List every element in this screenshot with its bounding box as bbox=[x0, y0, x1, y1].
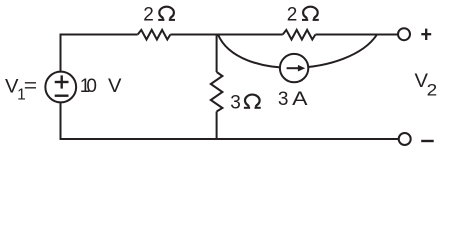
wire: top right from R2 to terminal bbox=[315, 34, 398, 36]
wire: top middle from R1 to node A bbox=[170, 34, 282, 36]
svg-text:A: A bbox=[292, 89, 308, 110]
terminal top (open circle) bbox=[398, 28, 410, 40]
svg-text:3: 3 bbox=[278, 89, 289, 110]
wire: left vertical above source bbox=[60, 34, 62, 73]
current source arrow bbox=[287, 65, 306, 72]
resistor R2 2ohm (top-right zigzag) bbox=[283, 30, 316, 40]
current source I1 circle bbox=[280, 54, 308, 82]
svg-text:=: = bbox=[24, 76, 37, 97]
resistor R1 2ohm (top-left zigzag) bbox=[138, 30, 171, 40]
wire: top-left horizontal from source to R1 bbox=[60, 34, 138, 36]
svg-text:3: 3 bbox=[230, 92, 241, 113]
wire: middle vertical node A to R3 bbox=[216, 35, 218, 73]
label plus terminal bbox=[421, 29, 431, 40]
svg-text:2: 2 bbox=[143, 5, 154, 26]
voltage source plus sign bbox=[55, 75, 69, 95]
svg-text:2: 2 bbox=[287, 5, 298, 26]
wire: left vertical below source bbox=[60, 102, 62, 140]
svg-text:0: 0 bbox=[86, 76, 97, 97]
svg-text:2: 2 bbox=[427, 81, 438, 100]
voltage source V1 circle bbox=[45, 72, 76, 103]
wire: curved bypass branch through current source bbox=[218, 35, 377, 68]
svg-text:V: V bbox=[108, 76, 122, 97]
resistor R3 3ohm (vertical zigzag) bbox=[211, 72, 223, 112]
wire: bottom horizontal bbox=[60, 138, 399, 140]
terminal bottom (open circle) bbox=[399, 133, 411, 145]
voltage source minus sign bbox=[55, 94, 69, 96]
label minus terminal bbox=[421, 140, 434, 142]
wire: middle vertical R3 to bottom bbox=[216, 112, 218, 141]
